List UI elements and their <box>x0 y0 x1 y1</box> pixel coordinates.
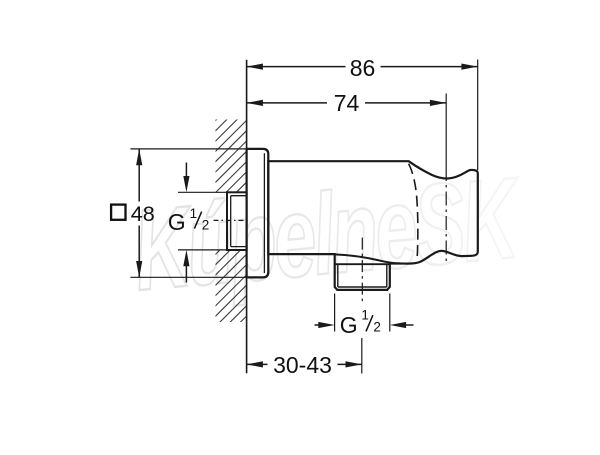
dim 30-43 left arrow <box>247 361 263 367</box>
outlet thread dim left arrow <box>315 324 321 326</box>
dim 48 extension top <box>130 148 246 150</box>
inlet thread dim extension lines <box>178 191 227 193</box>
svg-text:48: 48 <box>131 202 155 226</box>
dim 48 top arrow <box>136 149 142 165</box>
dim 48 line <box>138 149 140 202</box>
holder groove center line / 74 right extension <box>445 94 447 168</box>
nut shoulder line <box>335 263 390 265</box>
hidden dashed line <box>409 164 418 262</box>
svg-text:2: 2 <box>373 319 381 334</box>
body bottom S-curve over nut <box>335 254 400 263</box>
svg-text:1: 1 <box>361 308 369 323</box>
body outline <box>268 161 478 290</box>
nut inner lines <box>338 264 387 287</box>
86 right extension <box>477 60 479 171</box>
dim 48 bottom arrow <box>136 261 142 277</box>
dim 48 extension bottom <box>130 276 246 278</box>
dim 86 <box>247 66 478 68</box>
inlet thread dim top arrow <box>185 163 187 179</box>
dim 86 right arrow <box>461 64 477 70</box>
dim 74 left arrow <box>247 100 263 106</box>
inlet thread dim bottom arrow <box>185 264 187 283</box>
thread G1/2 inlet outer <box>227 192 247 250</box>
thread G1/2 inlet inner lines <box>231 196 247 247</box>
wall hatch <box>214 88 248 349</box>
svg-text:G: G <box>340 312 358 338</box>
dim 74 right arrow <box>430 100 446 106</box>
nut center line <box>361 238 363 305</box>
dim 30-43 <box>247 363 362 365</box>
wall face line <box>246 60 248 373</box>
outlet thread dim right arrow <box>405 324 414 326</box>
svg-text:2: 2 <box>202 218 210 233</box>
G1/2 bottom dim extension lines <box>334 294 336 332</box>
svg-text:30-43: 30-43 <box>273 352 332 378</box>
dim 74 <box>247 102 447 104</box>
dim 30-43 right arrow <box>346 361 362 367</box>
flange (escutcheon) <box>247 149 269 278</box>
flange tangent line <box>263 153 265 273</box>
watermark KupelneSK <box>129 153 528 315</box>
square symbol <box>111 205 125 220</box>
30-43 right extension <box>361 338 363 374</box>
svg-text:74: 74 <box>334 90 360 116</box>
inlet center line <box>214 219 245 221</box>
svg-text:86: 86 <box>350 55 376 81</box>
dim 86 left arrow <box>247 64 263 70</box>
svg-text:1: 1 <box>190 206 198 221</box>
svg-text:G: G <box>168 209 186 235</box>
